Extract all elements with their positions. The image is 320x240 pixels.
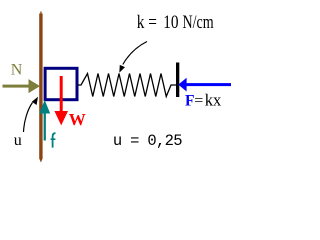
arrow W (red weight, pointing down) <box>54 76 68 125</box>
label k = 10 N/cm <box>137 11 214 33</box>
block (blue square mass) <box>45 68 77 99</box>
svg-text:W: W <box>69 110 86 129</box>
svg-text:k =: k = <box>137 12 157 33</box>
svg-text:F: F <box>185 92 194 109</box>
pointer arrow from k label to spring <box>119 42 147 73</box>
arrow N (olive, pointing right into wall) <box>3 79 41 93</box>
svg-text:=: = <box>194 92 203 109</box>
arrow F = kx (blue, pointing left at right wall) <box>178 78 231 92</box>
wall (right vertical black bar) <box>176 63 179 98</box>
label F = kx <box>185 90 222 109</box>
svg-text:N/cm: N/cm <box>183 11 214 33</box>
svg-text:N: N <box>11 62 23 79</box>
svg-text:10: 10 <box>163 12 179 33</box>
spring <box>78 74 177 97</box>
svg-text:u = 0,25: u = 0,25 <box>113 132 182 150</box>
pointer arrow from u label to block corner <box>24 97 39 132</box>
svg-text:u: u <box>14 132 22 149</box>
label f <box>51 133 56 147</box>
arrow f (teal friction, pointing up) <box>39 100 50 141</box>
svg-text:kx: kx <box>205 90 222 109</box>
wall (left vertical brown bar) <box>39 12 42 163</box>
